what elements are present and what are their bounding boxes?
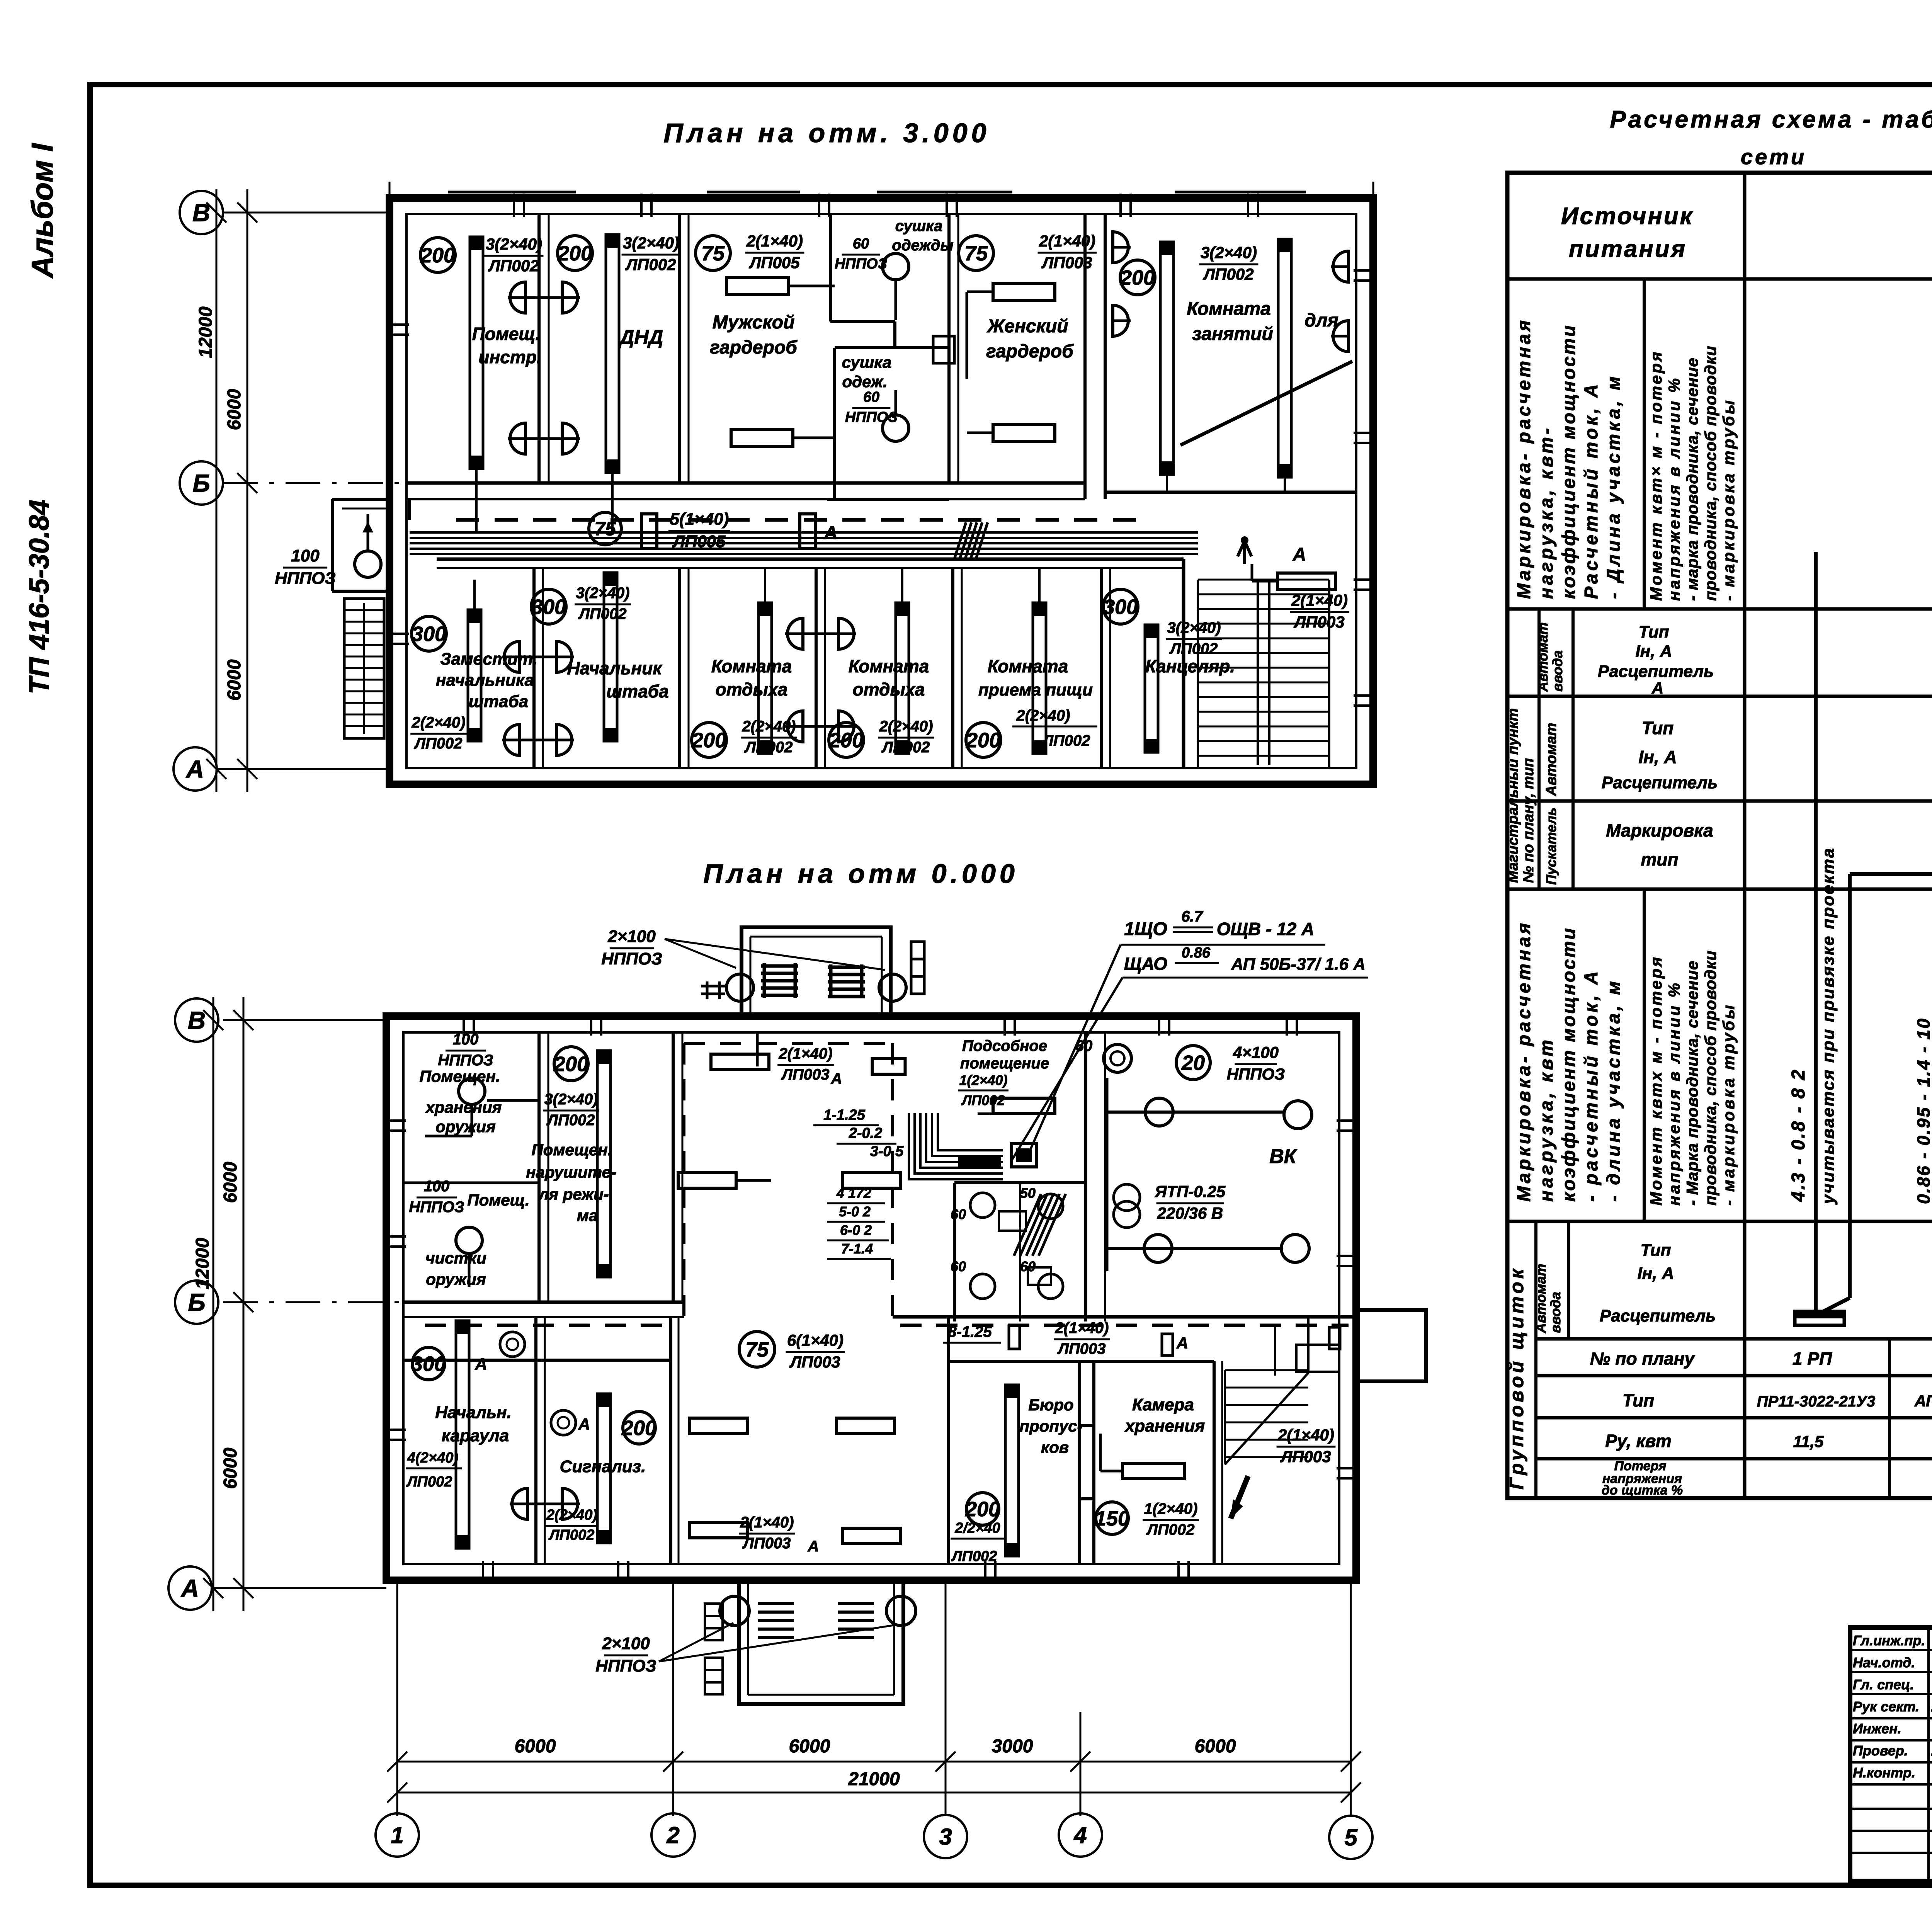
svg-text:проводника, способ проводки: проводника, способ проводки (1701, 345, 1719, 601)
svg-text:ЛП002: ЛП002 (1042, 732, 1090, 749)
sconce pair x1395 y770 (508, 282, 526, 313)
svg-text:4 172: 4 172 (836, 1185, 871, 1201)
svg-text:ЛП002: ЛП002 (881, 739, 930, 756)
wire diagonal strokes (1014, 1194, 1066, 1256)
svg-text:ЛП002: ЛП002 (414, 735, 463, 752)
svg-text:75: 75 (964, 242, 988, 265)
partition wall x2820 (ZhG | Komnata zanyatiy) (1083, 214, 1087, 499)
svg-text:НППОЗ: НППОЗ (275, 569, 336, 588)
upper corridor multi-wire bus (410, 531, 1198, 534)
svg-text:ков: ков (1041, 1438, 1069, 1456)
svg-text:2(2×40): 2(2×40) (742, 718, 796, 735)
svg-text:2(1×40): 2(1×40) (1055, 1320, 1109, 1337)
circle 200 narushit (554, 1047, 588, 1081)
transformer YaTP circles (1114, 1184, 1140, 1211)
circle 75 MG (696, 236, 730, 270)
svg-text:6000: 6000 (220, 1162, 241, 1203)
lower plan vertical dim outer (213, 997, 214, 1611)
vent double circle 60 (1104, 1044, 1131, 1072)
svg-text:200: 200 (557, 242, 592, 265)
bottom canopy ladder symbols (705, 1604, 723, 1640)
svg-text:ма: ма (577, 1206, 598, 1225)
svg-text:А: А (185, 755, 204, 783)
svg-text:Помещен.: Помещен. (420, 1067, 500, 1085)
svg-text:АП 50Б-37/ 1.6 А: АП 50Б-37/ 1.6 А (1231, 955, 1366, 974)
diagonal line in Komnata zanyatiy (1180, 361, 1352, 445)
svg-text:3(2×40): 3(2×40) (1167, 619, 1221, 636)
partition x3063 (stairwell wall) (1182, 559, 1185, 768)
svg-text:ЛП002: ЛП002 (625, 255, 676, 274)
svg-text:12000: 12000 (192, 1238, 213, 1289)
svg-text:ДНД: ДНД (618, 326, 663, 349)
svg-text:3000: 3000 (992, 1736, 1033, 1757)
svg-text:Ру, квт: Ру, квт (1605, 1431, 1671, 1451)
svg-text:6000: 6000 (224, 659, 245, 701)
svg-text:Тип: Тип (1622, 1390, 1655, 1410)
svg-text:Пускатель: Пускатель (1543, 808, 1559, 885)
svg-text:Б: Б (192, 469, 210, 497)
svg-text:одежды: одежды (892, 237, 953, 254)
svg-text:Iн, А: Iн, А (1637, 1264, 1674, 1283)
partition wall x1395 (Pomesch.instr | DND) (537, 214, 541, 483)
svg-text:200: 200 (1120, 266, 1155, 289)
svg-text:2×100: 2×100 (607, 927, 656, 946)
svg-text:ЛП002: ЛП002 (1146, 1521, 1195, 1538)
partition x2112 (815, 568, 818, 768)
column circle 5 (1329, 1816, 1372, 1859)
svg-text:ЩАО: ЩАО (1124, 954, 1167, 974)
svg-text:отдыха: отдыха (853, 679, 925, 699)
svg-text:НППОЗ: НППОЗ (601, 949, 662, 968)
svg-text:200: 200 (621, 1417, 656, 1440)
lp VK room lamps (1145, 1098, 1173, 1126)
svg-text:5-0 2: 5-0 2 (839, 1204, 871, 1219)
lp corridor walls y3370 (403, 1301, 684, 1304)
svg-text:Помещен.: Помещен. (532, 1141, 612, 1159)
svg-text:200: 200 (420, 244, 455, 267)
svg-text:1: 1 (391, 1822, 403, 1848)
lamp bar signaliz (597, 1394, 611, 1543)
upper plan top wall window ticks (513, 194, 515, 217)
svg-text:21000: 21000 (848, 1769, 900, 1789)
svg-text:6(1×40): 6(1×40) (787, 1331, 844, 1349)
svg-text:Расчетная схема - таблица: Расчетная схема - таблица магистральной (1610, 106, 1932, 133)
svg-text:Провер.: Провер. (1853, 1743, 1908, 1759)
svg-text:НППОЗ: НППОЗ (845, 409, 898, 425)
upper plan right wall ticks (1354, 269, 1377, 272)
svg-text:нарушите-: нарушите- (526, 1163, 616, 1181)
svg-text:5: 5 (1344, 1825, 1358, 1850)
corridor circle 75 (589, 512, 621, 545)
panel blob 1RP (958, 1157, 1001, 1169)
wall sconces Komnata zanyatiy (1113, 232, 1131, 263)
svg-text:200: 200 (691, 729, 726, 752)
corridor riser rect A1 (641, 514, 657, 549)
corridor riser rects lower (1009, 1326, 1020, 1349)
svg-text:ввода: ввода (1549, 650, 1565, 692)
svg-text:Канцеляр.: Канцеляр. (1145, 656, 1235, 676)
fixture circle signaliz (551, 1410, 576, 1435)
svg-text:План на отм 0.000: План на отм 0.000 (703, 859, 1019, 889)
feeder line 1RP (1814, 552, 1818, 1311)
upper plan vertical dim line inner (247, 189, 248, 792)
partition wall x2140 (MG | sushka block) (829, 214, 832, 321)
svg-text:20: 20 (1181, 1051, 1205, 1075)
svg-text:А: А (474, 1355, 487, 1374)
svg-text:хранения: хранения (425, 1098, 502, 1116)
svg-text:Расцепитель: Расцепитель (1598, 662, 1714, 681)
upper plan top wall pier lines (448, 191, 576, 194)
svg-text:Комната: Комната (849, 656, 929, 676)
svg-text:напряжения в линии %: напряжения в линии % (1665, 376, 1683, 601)
svg-text:3-0.5: 3-0.5 (870, 1143, 904, 1160)
partition wall x1758 (DND | Muzhskoy garderob) (678, 214, 681, 483)
top canopy turnstile hatch left (761, 963, 798, 998)
column circle 2 (651, 1813, 695, 1857)
lp partition x2455 (947, 1317, 950, 1564)
wire KZ bar1 to corridor (1166, 474, 1168, 492)
svg-text:12000: 12000 (196, 306, 216, 358)
svg-text:6-0 2: 6-0 2 (840, 1222, 872, 1238)
stair landing rail (1197, 580, 1199, 768)
svg-text:Комната: Комната (711, 656, 792, 676)
svg-text:сушка: сушка (842, 353, 892, 371)
axis circle B-mid upper (180, 461, 223, 505)
dim line 6000/6000/3000/6000 (397, 1761, 1351, 1763)
svg-text:2(2×40): 2(2×40) (412, 714, 466, 731)
svg-text:300: 300 (1103, 595, 1138, 619)
svg-text:4(2×40): 4(2×40) (407, 1450, 458, 1466)
corridor hatch marks (954, 522, 988, 559)
sconce pair x1382 y1700 (left room) (502, 641, 520, 672)
column circle 3 (924, 1815, 967, 1858)
svg-text:приема пищи: приема пищи (978, 680, 1093, 699)
top canopy ladder symbol right (911, 942, 924, 994)
svg-text:№ по плану, тип: № по плану, тип (1520, 758, 1537, 883)
svg-text:200: 200 (965, 1498, 1000, 1521)
circle 75 hall (739, 1332, 775, 1367)
svg-text:60: 60 (951, 1206, 966, 1222)
svg-text:150: 150 (1095, 1507, 1129, 1530)
axis circle A lower (168, 1566, 212, 1610)
svg-text:Альбом I: Альбом I (25, 143, 59, 279)
svg-text:Источник: Источник (1561, 203, 1694, 230)
column extension lines (396, 1580, 398, 1816)
svg-text:ЛП002: ЛП002 (951, 1548, 997, 1565)
lamp bar Kancelyariya (1145, 625, 1158, 752)
table h-line y3775 (1536, 1457, 1932, 1461)
svg-text:300: 300 (531, 595, 566, 619)
circle 200 byuro (966, 1493, 999, 1525)
circle 200 otdyha2 (829, 723, 864, 757)
svg-text:2(1×40): 2(1×40) (779, 1045, 833, 1062)
svg-text:Гл.инж.пр.: Гл.инж.пр. (1853, 1633, 1925, 1648)
upper plan entrance vestibule (332, 498, 389, 501)
svg-text:Автомат: Автомат (1533, 1264, 1549, 1333)
svg-text:- Марка проводника, сечение: - Марка проводника, сечение (1683, 961, 1701, 1206)
circle 200 signaliz (623, 1412, 655, 1444)
svg-text:для: для (1304, 310, 1338, 331)
svg-text:3(2×40): 3(2×40) (486, 235, 542, 253)
svg-text:Комната: Комната (1187, 299, 1271, 319)
axis circle Bmid lower (175, 1281, 218, 1324)
table h-line y3161 (1507, 1220, 1932, 1223)
circle 200 priema (966, 723, 1001, 757)
top canopy lamp circle right (879, 974, 906, 1001)
svg-text:Тип: Тип (1639, 622, 1669, 641)
circle 200 room1 (420, 238, 455, 272)
lp partition x1755 (672, 1032, 675, 1302)
svg-text:хранения: хранения (1124, 1417, 1205, 1435)
svg-text:гардероб: гардероб (710, 337, 798, 358)
svg-text:А: А (180, 1574, 199, 1602)
partition x2850 (1100, 568, 1103, 768)
lp stairs upper rail (1296, 1345, 1339, 1372)
svg-text:3(2×40): 3(2×40) (544, 1091, 598, 1108)
upper plan right stairwell steps (1198, 580, 1329, 756)
lower plan axis B line (223, 1019, 386, 1021)
svg-text:помещение: помещение (960, 1055, 1049, 1072)
svg-text:ТП 416-5-30.84: ТП 416-5-30.84 (24, 500, 55, 694)
bottom canopy lamp circle left (720, 1596, 749, 1626)
circle 20 VK (1176, 1046, 1210, 1080)
svg-text:- марка проводника, сечение: - марка проводника, сечение (1683, 357, 1701, 601)
svg-text:2(1×40): 2(1×40) (746, 232, 803, 250)
svg-text:питания: питания (1569, 236, 1687, 262)
sushka lamp circle bottom (883, 415, 909, 441)
upper plan axis B(mid) line dash-dot (223, 482, 406, 484)
lower plan bottom wall ticks (482, 1561, 484, 1584)
tb signature columns (1927, 1628, 1930, 1881)
svg-text:отдыха: отдыха (716, 679, 788, 699)
svg-text:НППОЗ: НППОЗ (409, 1199, 464, 1216)
partition wall x2456 (sushka | Zhensky garderob) (947, 214, 951, 483)
hall lamp bars mid (678, 1173, 736, 1188)
svg-text:Н.контр.: Н.контр. (1853, 1765, 1915, 1781)
table h-line y3669 (1536, 1416, 1932, 1420)
svg-text:Женский: Женский (986, 316, 1068, 337)
table v-line x4255a (1643, 279, 1646, 609)
lp corridor dashed (425, 1324, 672, 1327)
circle 200 KZ (1120, 260, 1155, 295)
sconce pair x1395 y1135 (508, 423, 526, 454)
sconce pair x2112 y1880 (785, 711, 803, 742)
svg-text:проводника, способ проводки: проводника, способ проводки (1701, 950, 1719, 1206)
table h-line y2301 (1507, 888, 1932, 891)
svg-text:6000: 6000 (1195, 1736, 1236, 1757)
lower plan vertical dim inner (243, 997, 245, 1611)
table v-line x4255b (1643, 889, 1646, 1221)
sconce pair x2112 y1640 (785, 618, 803, 649)
lamp circle hranenia (459, 1078, 485, 1104)
table v-line x4071 (1571, 609, 1575, 889)
svg-text:оружия: оружия (435, 1117, 495, 1136)
horizontal lamp MG top (726, 277, 788, 294)
svg-text:ЛП003: ЛП003 (1280, 1447, 1331, 1466)
svg-text:АП 50Б-3Т: АП 50Б-3Т (1914, 1392, 1932, 1410)
svg-text:нагрузка, квт-: нагрузка, квт- (1536, 425, 1557, 599)
vestibule lamp circle 100 NPPO3 (355, 551, 381, 577)
svg-text:5(1×40): 5(1×40) (670, 510, 729, 529)
column circle 1 (376, 1813, 419, 1857)
lamp bar Nachalnik shtaba (604, 573, 617, 741)
svg-text:№ по плану: № по плану (1590, 1349, 1696, 1369)
lower plan right wall ticks (1337, 1119, 1360, 1122)
svg-text:2: 2 (666, 1822, 679, 1848)
lp room hranenia inner wall (487, 1099, 539, 1102)
svg-text:Тип: Тип (1642, 718, 1674, 738)
horizontal lamp MG bottom (731, 429, 793, 446)
top canopy turnstile hatch right (828, 964, 865, 998)
svg-text:4×100: 4×100 (1233, 1043, 1279, 1061)
upper corridor wall y1250 (406, 481, 1085, 485)
svg-text:2(1×40): 2(1×40) (1277, 1426, 1334, 1444)
svg-text:ЛП003: ЛП003 (781, 1066, 830, 1083)
svg-text:одеж.: одеж. (842, 372, 887, 391)
svg-text:Б: Б (188, 1288, 205, 1316)
svg-text:Подсобное: Подсобное (962, 1037, 1047, 1054)
svg-text:200: 200 (966, 729, 1001, 752)
svg-text:чистки: чистки (425, 1249, 486, 1267)
svg-text:ЯТП-0.25: ЯТП-0.25 (1155, 1182, 1226, 1201)
wire bottom-row bars to wall (764, 568, 766, 603)
column circle 4 (1059, 1813, 1102, 1857)
table h-line y1576 (1507, 607, 1932, 611)
lp hall dashed boundary (682, 1043, 685, 1321)
callout leader lines (1028, 945, 1121, 1155)
svg-text:2(1×40): 2(1×40) (1291, 591, 1348, 609)
wire bundle nest near panel (909, 1113, 1003, 1179)
svg-text:занятий: занятий (1192, 324, 1273, 344)
svg-text:3(2×40): 3(2×40) (623, 234, 679, 252)
svg-text:Камера: Камера (1132, 1395, 1194, 1414)
table h-line y2073 (1507, 799, 1932, 803)
lp stairs down arrow (1231, 1476, 1248, 1519)
wire from L1 to corridor bus (475, 469, 478, 532)
svg-text:Момент квтх м - потеря: Момент квтх м - потеря (1647, 955, 1665, 1206)
upper plan stairs (344, 599, 384, 738)
svg-text:- Длина участка, м: - Длина участка, м (1604, 374, 1624, 599)
svg-text:6000: 6000 (220, 1447, 241, 1489)
svg-text:75: 75 (745, 1338, 769, 1361)
hall lamp bars bottom area (690, 1418, 748, 1434)
svg-text:ля режи-: ля режи- (538, 1185, 609, 1203)
lamp bar byuro (1005, 1385, 1019, 1556)
top canopy tick symbol left (706, 981, 709, 999)
dim line 21000 (397, 1792, 1351, 1794)
svg-text:ОЩВ - 12 А: ОЩВ - 12 А (1217, 919, 1315, 939)
lp partition x1746b (669, 1317, 672, 1564)
table v-line x4060 (1567, 1221, 1570, 1339)
svg-text:Нач.отд.: Нач.отд. (1853, 1655, 1915, 1670)
svg-text:начальника: начальника (436, 671, 534, 690)
svg-text:Момент квт× м - потеря: Момент квт× м - потеря (1647, 350, 1665, 601)
svg-text:нагрузка, квт: нагрузка, квт (1536, 1037, 1557, 1202)
svg-text:пропус-: пропус- (1019, 1417, 1082, 1435)
svg-text:НППОЗ: НППОЗ (595, 1656, 656, 1675)
bottom canopy turnstile hatch left (758, 1604, 794, 1638)
lp stair wall x3386 (1307, 1317, 1310, 1373)
table v-line x3975 (1534, 1221, 1537, 1498)
svg-text:Расцепитель: Расцепитель (1602, 773, 1718, 792)
svg-text:Заместит.: Заместит. (440, 650, 537, 668)
svg-text:4.3 - 0.8 - 8 2: 4.3 - 0.8 - 8 2 (1788, 1068, 1809, 1202)
svg-text:Сигнализ.: Сигнализ. (560, 1457, 646, 1476)
corridor riser rect A2 (800, 514, 815, 549)
lp VK room left wall (1104, 1032, 1106, 1321)
svg-text:220/36 В: 220/36 В (1157, 1204, 1223, 1222)
svg-text:ЛП003: ЛП003 (1041, 253, 1092, 272)
bottom canopy lamp circle right (886, 1596, 916, 1626)
upper plan axis B line (223, 212, 389, 214)
horizontal lamp ZhG bottom (993, 424, 1055, 441)
svg-text:1(2×40): 1(2×40) (959, 1072, 1007, 1088)
tb signature rows (1850, 1649, 1932, 1651)
svg-text:Маркировка- расчетная: Маркировка- расчетная (1514, 920, 1534, 1202)
svg-text:План на отм. 3.000: План на отм. 3.000 (663, 118, 990, 148)
svg-text:А: А (808, 1538, 819, 1555)
svg-text:1(2×40): 1(2×40) (1144, 1500, 1198, 1517)
svg-text:Начальник: Начальник (567, 658, 663, 678)
svg-text:ЛП002: ЛП002 (546, 1112, 595, 1129)
lower plan outer wall (386, 1016, 1356, 1580)
svg-text:75: 75 (701, 242, 725, 265)
lower plan top wall ticks (463, 1012, 465, 1036)
svg-text:7-1.4: 7-1.4 (841, 1241, 873, 1257)
sushka block walls (830, 320, 895, 323)
svg-text:оружия: оружия (426, 1270, 486, 1288)
upper corridor wall right section (1105, 491, 1357, 494)
lower plan axis A line (212, 1587, 386, 1589)
axis circle A upper (173, 747, 217, 791)
svg-text:11,5: 11,5 (1793, 1432, 1824, 1451)
svg-text:0.86: 0.86 (1182, 945, 1211, 961)
svg-text:НППОЗ: НППОЗ (835, 256, 887, 272)
svg-text:Групповой щиток: Групповой щиток (1506, 1266, 1527, 1490)
partition x1382 (Zamestit | Nachalnik) (532, 568, 536, 768)
svg-text:Автомат: Автомат (1543, 723, 1560, 796)
lp WC block walls (954, 1181, 1086, 1184)
svg-text:Мужской: Мужской (713, 312, 795, 333)
svg-text:ЛП002: ЛП002 (406, 1474, 452, 1490)
svg-text:ЛП003: ЛП003 (742, 1535, 791, 1552)
svg-text:1 РП: 1 РП (1793, 1349, 1832, 1369)
bottom canopy outline (739, 1580, 903, 1704)
svg-text:- расчетный ток, А: - расчетный ток, А (1581, 969, 1602, 1202)
table v-line x4515 (1743, 173, 1747, 1498)
svg-text:100: 100 (453, 1031, 479, 1048)
svg-text:ЛП003: ЛП003 (789, 1353, 840, 1371)
svg-text:Инжен.: Инжен. (1853, 1721, 1901, 1736)
svg-text:Помещ.: Помещ. (472, 324, 541, 344)
svg-text:50: 50 (1020, 1185, 1036, 1201)
svg-text:2-0.2: 2-0.2 (849, 1125, 883, 1141)
svg-text:2(2×40): 2(2×40) (879, 718, 933, 735)
svg-text:А: А (1651, 679, 1663, 697)
svg-text:коэффициент мощности: коэффициент мощности (1559, 324, 1579, 599)
partition x2466 (951, 568, 954, 768)
svg-text:2(2×40): 2(2×40) (1016, 707, 1070, 724)
svg-text:1-1.25: 1-1.25 (823, 1107, 866, 1123)
svg-text:НППОЗ: НППОЗ (1227, 1065, 1285, 1083)
lamp rect right corridor (1277, 573, 1335, 589)
svg-text:3(2×40): 3(2×40) (1201, 243, 1257, 262)
svg-text:Начальн.: Начальн. (435, 1403, 512, 1422)
axis circle B lower (175, 998, 218, 1042)
svg-text:ЛП002: ЛП002 (1202, 265, 1253, 283)
circle 300 nachalnik (531, 589, 566, 624)
svg-text:А: А (824, 523, 838, 543)
